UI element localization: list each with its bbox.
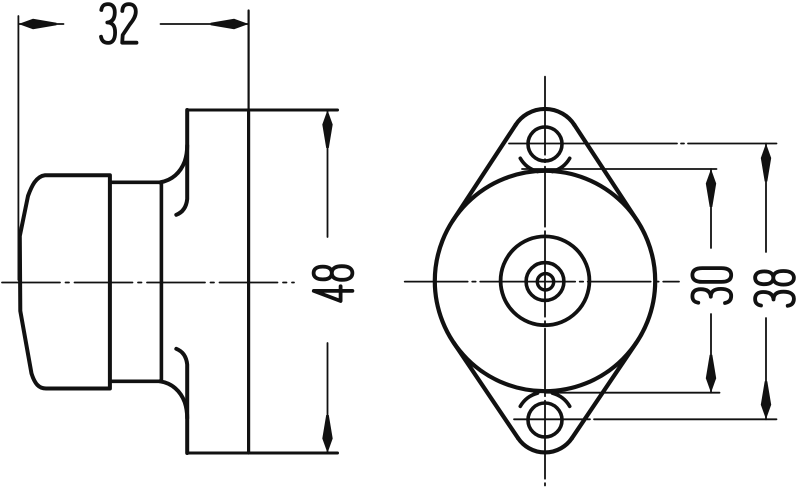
flange front face bottom with inner curl	[176, 349, 187, 453]
dim 32 dimension line left segment	[18, 23, 63, 25]
dim 30 dimension line lower segment	[710, 314, 712, 393]
inner lens circle	[501, 236, 590, 325]
flange tangent edge top-left	[453, 125, 516, 221]
top hole seat arc right	[552, 158, 569, 171]
flange tangent edge bottom-left	[454, 343, 518, 439]
label 48	[314, 266, 353, 301]
label 32	[101, 4, 137, 43]
bezel ring side view	[110, 182, 161, 381]
label 38	[755, 271, 794, 306]
housing flare top curve	[160, 146, 187, 183]
dim 32 arrow right	[211, 19, 249, 29]
lamp body circle front view	[435, 171, 655, 391]
label 30	[692, 268, 731, 303]
flange plate top edge (extended as extension line)	[187, 109, 337, 112]
dim 48 dimension line lower segment	[327, 343, 329, 453]
dim 30 arrow up	[706, 169, 716, 207]
dim 38 dimension line lower segment	[765, 318, 767, 419]
dim 38 bottom extension line through hole center	[514, 418, 777, 420]
center pilot circle	[537, 274, 553, 290]
dim 48 arrow down	[322, 415, 332, 453]
dim 48 arrow up	[322, 110, 332, 148]
top hole seat arc left	[520, 158, 537, 171]
flange plate rear face	[247, 112, 250, 453]
top mounting hole	[528, 127, 562, 161]
dim 32 extension line left	[17, 16, 19, 280]
bottom flange lobe arc	[518, 438, 572, 452]
flange tangent edge top-right	[574, 125, 637, 221]
dim 48 dimension line upper segment	[327, 110, 329, 237]
dim 30 bottom extension line	[545, 392, 720, 394]
bottom hole seat arc left	[520, 393, 537, 406]
dim 30 arrow down	[706, 355, 716, 393]
dim 38 arrow up	[761, 144, 771, 182]
dim 38 dimension line upper segment	[765, 144, 767, 253]
flange tangent edge bottom-right	[572, 343, 637, 439]
bulb circle	[526, 263, 564, 301]
front view horizontal center line	[405, 281, 679, 283]
flange plate bottom edge (extended as extension line)	[187, 452, 337, 455]
dim 32 extension line right upper part	[248, 11, 250, 113]
front view vertical center line	[544, 77, 546, 486]
dim 32 dimension line right segment	[161, 23, 249, 25]
dim 30 top extension line	[522, 168, 717, 170]
dim 38 top extension line through hole center	[509, 143, 777, 145]
housing flare bottom curve	[160, 381, 187, 418]
dim 32 arrow left	[19, 19, 57, 29]
top flange lobe arc	[516, 109, 575, 125]
bottom hole seat arc right	[552, 393, 569, 406]
dim 30 dimension line upper segment	[710, 169, 712, 248]
side view center line	[2, 282, 294, 284]
flange front face top with inner curl	[176, 110, 187, 215]
lens cap side view	[20, 175, 110, 388]
dim 38 arrow down	[761, 381, 771, 419]
bottom mounting hole	[528, 403, 562, 437]
